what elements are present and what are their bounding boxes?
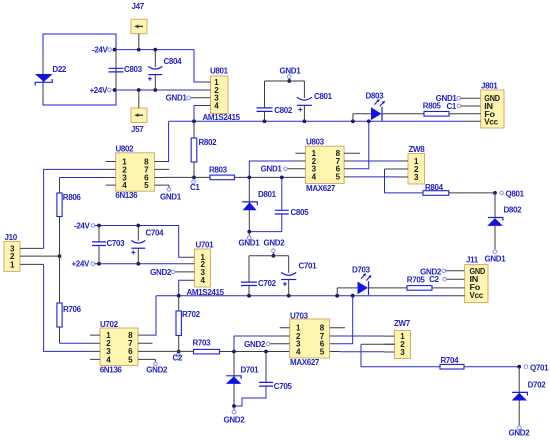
svg-text:4: 4 xyxy=(214,101,219,110)
svg-text:C804: C804 xyxy=(164,57,183,66)
svg-text:5: 5 xyxy=(320,347,325,356)
svg-text:U702: U702 xyxy=(100,320,119,329)
svg-text:J47: J47 xyxy=(132,2,145,11)
svg-text:4: 4 xyxy=(312,173,317,182)
terminal ZW8 xyxy=(399,145,426,184)
wire U703 pin5 to ZW7 pin3 xyxy=(340,351,385,353)
capacitor C804 xyxy=(148,50,182,90)
port +24V (lower) xyxy=(71,260,94,269)
wire GND1 top rail xyxy=(265,80,305,82)
svg-text:J801: J801 xyxy=(481,81,498,90)
svg-text:C701: C701 xyxy=(299,262,318,271)
svg-text:C2: C2 xyxy=(173,354,183,363)
wire +24V rail xyxy=(113,88,201,92)
svg-text:+24V: +24V xyxy=(89,86,108,95)
svg-text:C801: C801 xyxy=(314,92,333,101)
svg-text:6N136: 6N136 xyxy=(100,365,123,374)
wire R806 to U802 pin3 xyxy=(60,177,106,179)
svg-text:C803: C803 xyxy=(124,65,143,74)
resistor R703 xyxy=(193,338,220,354)
svg-text:C704: C704 xyxy=(146,228,165,237)
svg-text:ZW7: ZW7 xyxy=(394,319,411,328)
svg-text:3: 3 xyxy=(400,348,405,357)
svg-text:J11: J11 xyxy=(466,255,479,264)
capacitor C802 xyxy=(257,81,293,121)
port C2 (J11) xyxy=(429,275,465,284)
wire input loop box xyxy=(43,34,116,105)
svg-text:U802: U802 xyxy=(116,144,135,153)
svg-text:GND2: GND2 xyxy=(244,340,266,349)
diode D801 xyxy=(242,177,276,231)
svg-text:Vcc: Vcc xyxy=(470,291,484,300)
svg-text:-24V: -24V xyxy=(92,45,109,54)
wire U701 pin4 to VCC2 rail xyxy=(179,280,185,296)
wire R704 to Q701 xyxy=(464,365,521,369)
wire U803 pin2 to C1 rail xyxy=(249,161,295,177)
port -24V (lower) xyxy=(74,221,95,230)
svg-text:ZW8: ZW8 xyxy=(409,145,426,154)
svg-text:D703: D703 xyxy=(352,265,371,274)
svg-text:J10: J10 xyxy=(5,233,18,242)
svg-text:4: 4 xyxy=(122,181,127,190)
svg-text:R702: R702 xyxy=(182,310,201,319)
svg-text:5: 5 xyxy=(128,355,133,364)
svg-text:R706: R706 xyxy=(63,305,82,314)
wire U803 pin6 to VCC1 rail xyxy=(354,121,369,169)
wire C2 rail xyxy=(148,350,290,354)
wire GND2 cap rail xyxy=(249,255,289,257)
port GND2 (D702) xyxy=(509,426,531,438)
wire J10 pin1 to U702 pin3 xyxy=(44,264,90,351)
svg-text:C802: C802 xyxy=(274,106,293,115)
connector J801 xyxy=(467,81,505,128)
svg-text:Q801: Q801 xyxy=(506,190,525,199)
capacitor C702 xyxy=(241,256,277,296)
svg-text:R704: R704 xyxy=(441,356,460,365)
wire J10 pin3 to U802 pin2 xyxy=(44,169,106,248)
node J10 pin2 junction xyxy=(58,254,62,258)
svg-text:GND1: GND1 xyxy=(261,165,283,174)
resistor R705 xyxy=(407,276,451,291)
svg-text:MAX627: MAX627 xyxy=(290,358,320,367)
driver U803 xyxy=(287,137,360,193)
svg-text:4: 4 xyxy=(200,276,205,285)
svg-text:GND2: GND2 xyxy=(224,416,246,425)
wire +24V rail to J57 xyxy=(138,90,140,108)
port -24V xyxy=(92,45,111,54)
svg-text:J57: J57 xyxy=(131,125,144,134)
port GND1 (D801/C805) xyxy=(239,230,261,248)
port Q701 xyxy=(524,363,549,372)
connector J47 xyxy=(131,2,147,34)
svg-text:R803: R803 xyxy=(209,166,228,175)
capacitor C703 xyxy=(92,226,125,264)
wire U803 pin7 to ZW8 pin1 xyxy=(354,160,398,162)
capacitor C805 xyxy=(249,177,309,231)
svg-text:-24V: -24V xyxy=(74,221,91,230)
resistor R804 xyxy=(423,183,449,195)
port GND2 (U702 pin5) xyxy=(146,359,168,374)
svg-text:D701: D701 xyxy=(241,365,260,374)
capacitor C701 xyxy=(281,256,317,296)
capacitor C705 xyxy=(234,352,292,407)
capacitor C801 xyxy=(297,81,333,121)
resistor R803 xyxy=(209,166,235,180)
resistor R702 xyxy=(176,296,201,352)
svg-text:Q701: Q701 xyxy=(530,363,549,372)
wire -24V lower rail xyxy=(95,224,185,258)
wire R706 to U702 pin2 xyxy=(60,342,91,344)
port GND2 (U703 pin3) xyxy=(244,340,270,349)
wire U803 pin5 to ZW8 pin3 xyxy=(354,176,398,178)
port Q801 xyxy=(500,190,525,199)
resistor R802 xyxy=(191,121,217,177)
svg-text:R705: R705 xyxy=(407,276,426,285)
svg-text:C805: C805 xyxy=(291,208,310,217)
wire U802 pin8 to VCC1 rail xyxy=(165,121,169,161)
wire U703 pin6 to VCC2 rail xyxy=(340,296,353,344)
svg-text:D802: D802 xyxy=(504,206,523,215)
optocoupler U702 xyxy=(90,320,155,374)
wire VCC1 rail xyxy=(169,119,467,123)
wire U702 pin8 to VCC2 rail xyxy=(148,296,156,335)
resistor R805 xyxy=(423,102,467,116)
svg-text:R802: R802 xyxy=(199,138,218,147)
svg-text:GND1: GND1 xyxy=(485,255,507,264)
capacitor C704 xyxy=(131,226,164,264)
resistor R704 xyxy=(440,356,464,369)
port GND2 (U701 pin3) xyxy=(150,268,175,277)
svg-text:MAX627: MAX627 xyxy=(306,184,336,193)
svg-text:6N136: 6N136 xyxy=(115,191,138,200)
diode D701 xyxy=(226,352,259,407)
diode D22 xyxy=(35,52,67,102)
svg-text:GND2: GND2 xyxy=(146,365,168,374)
svg-text:C702: C702 xyxy=(258,279,277,288)
wire R804 to Q801 xyxy=(449,191,497,195)
LED D703 xyxy=(337,265,407,295)
zener D802 xyxy=(487,193,522,250)
connector J11 xyxy=(451,255,488,302)
port GND1 (J801) xyxy=(436,94,481,103)
svg-text:GND1: GND1 xyxy=(280,66,302,75)
svg-text:C2: C2 xyxy=(429,275,439,284)
driver U703 xyxy=(270,312,345,367)
port GND2 (C702/C701) xyxy=(264,239,286,258)
svg-text:GND1: GND1 xyxy=(239,239,261,248)
wire +24V lower rail xyxy=(95,262,185,266)
svg-text:GND1: GND1 xyxy=(160,193,182,202)
svg-text:U701: U701 xyxy=(196,240,215,249)
svg-text:4: 4 xyxy=(106,355,111,364)
port +24V xyxy=(89,86,111,95)
port GND2 (D701/C705) xyxy=(224,404,246,424)
port GND2 (J11) xyxy=(420,268,465,277)
zener D702 xyxy=(512,367,547,426)
svg-text:D801: D801 xyxy=(258,190,277,199)
svg-text:C1: C1 xyxy=(446,102,456,111)
svg-text:R703: R703 xyxy=(193,338,212,347)
svg-text:GND2: GND2 xyxy=(150,268,172,277)
svg-text:1: 1 xyxy=(10,260,15,269)
svg-text:GND2: GND2 xyxy=(264,239,286,248)
optocoupler U802 xyxy=(106,144,169,200)
svg-text:Vcc: Vcc xyxy=(484,118,498,127)
terminal ZW7 xyxy=(385,319,411,359)
svg-text:4: 4 xyxy=(296,347,301,356)
node C1 xyxy=(190,176,200,192)
port C1 (J801) xyxy=(446,102,480,111)
wire U801 pin4 to VCC1 rail xyxy=(194,106,201,122)
svg-text:C703: C703 xyxy=(107,239,126,248)
node C2 xyxy=(173,350,183,363)
wire C1 rail xyxy=(165,176,306,180)
svg-text:C705: C705 xyxy=(274,382,293,391)
svg-text:GND2: GND2 xyxy=(509,428,531,437)
port GND1 (U803 pin3) xyxy=(261,165,288,174)
svg-text:D803: D803 xyxy=(366,91,385,100)
converter U801 xyxy=(191,67,241,122)
svg-text:U801: U801 xyxy=(210,67,229,76)
svg-text:U703: U703 xyxy=(290,312,309,321)
svg-text:5: 5 xyxy=(144,181,149,190)
wire ZW7 pin2 to R704 xyxy=(361,343,395,345)
svg-text:R804: R804 xyxy=(425,183,444,192)
svg-text:GND1: GND1 xyxy=(166,94,188,103)
connector J10 xyxy=(4,233,60,271)
wire -24V rail xyxy=(113,48,201,82)
port GND1 (top) xyxy=(280,66,302,83)
svg-text:R806: R806 xyxy=(63,193,82,202)
converter U701 xyxy=(175,240,225,297)
svg-text:D22: D22 xyxy=(52,65,67,74)
port GND1 (U801 pin3) xyxy=(166,94,191,103)
wire U703 pin2 to C2 rail xyxy=(234,336,280,352)
port GND1 (D802) xyxy=(485,250,507,264)
svg-text:AM1S2415: AM1S2415 xyxy=(203,113,241,122)
LED D803 xyxy=(353,91,424,121)
svg-text:5: 5 xyxy=(336,173,341,182)
capacitor C803 xyxy=(109,50,143,90)
port GND1 (U802 pin5) xyxy=(160,185,182,201)
wire J47 to -24V rail xyxy=(138,34,140,50)
svg-text:C1: C1 xyxy=(190,183,200,192)
wire U703 pin7 to ZW7 pin1 xyxy=(340,335,385,337)
svg-text:D702: D702 xyxy=(528,381,547,390)
svg-text:U803: U803 xyxy=(306,137,325,146)
connector J57 xyxy=(131,108,147,134)
resistor R806 xyxy=(57,178,82,257)
svg-text:3: 3 xyxy=(414,173,419,182)
wire ZW8 pin2 to R804 xyxy=(385,168,399,170)
svg-text:+24V: +24V xyxy=(71,260,90,269)
resistor R706 xyxy=(57,256,82,343)
wire VCC2 rail xyxy=(156,294,451,298)
